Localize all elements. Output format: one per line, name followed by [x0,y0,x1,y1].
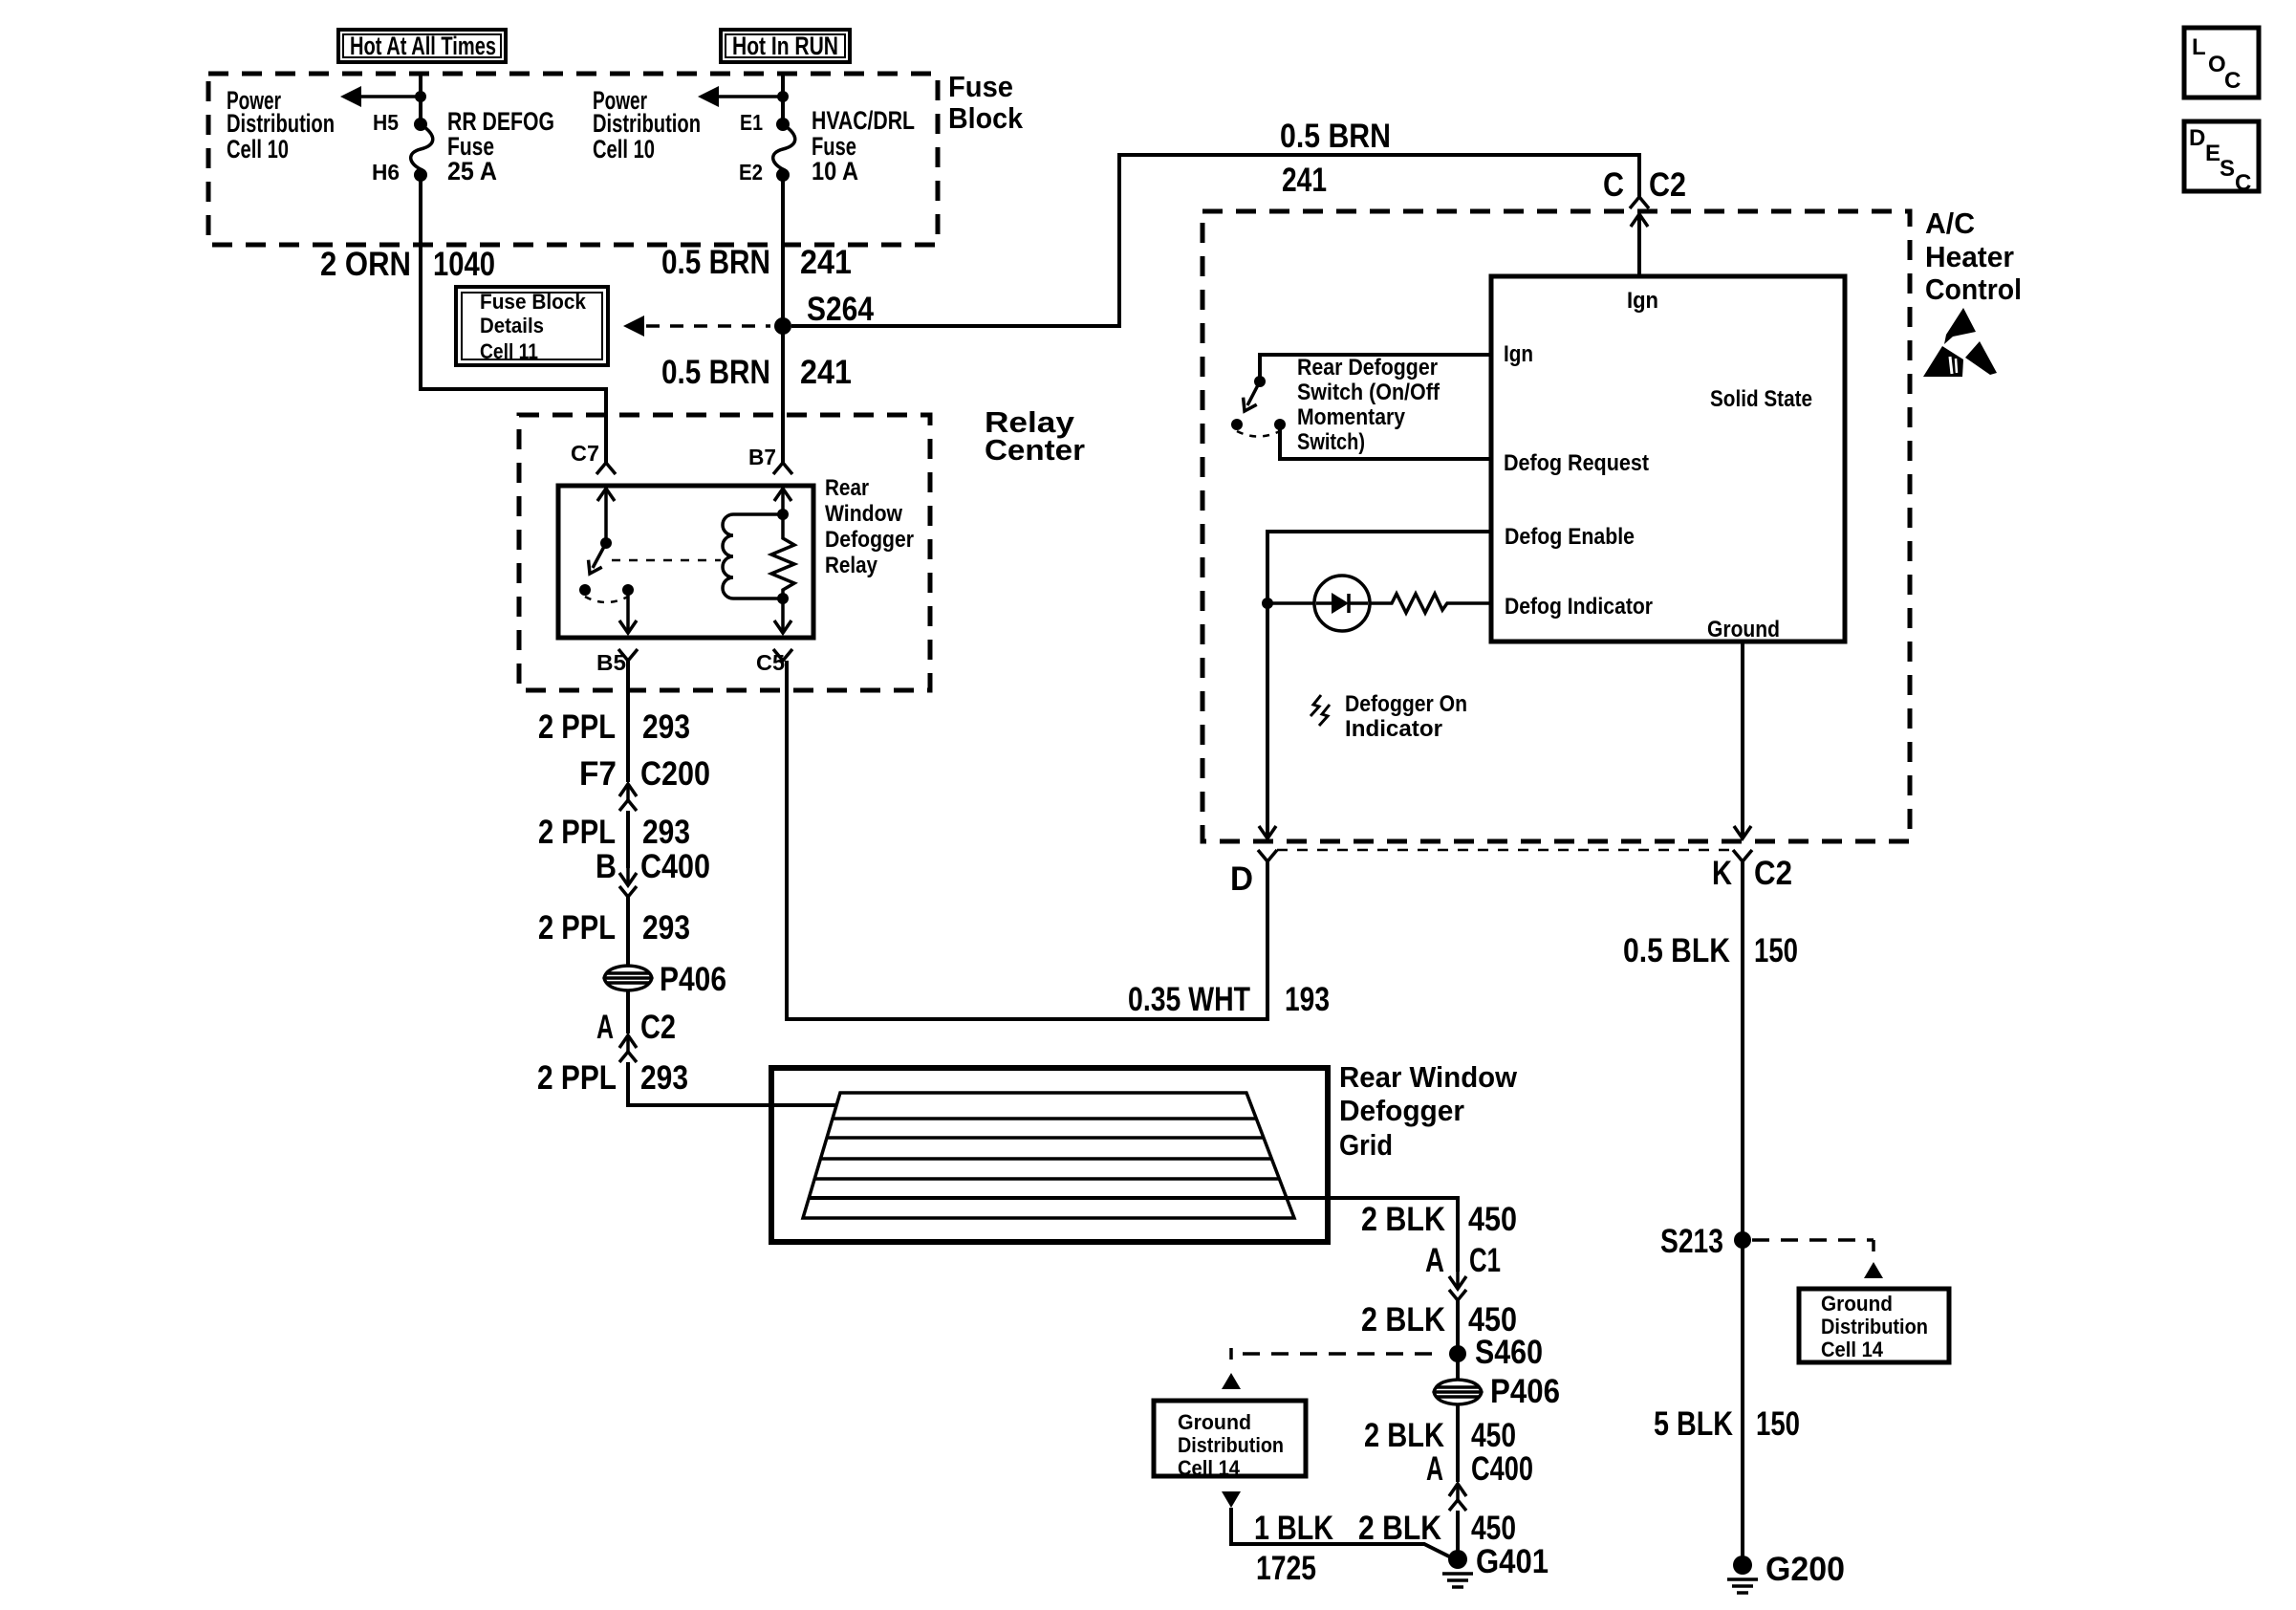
svg-text:2 PPL: 2 PPL [537,1059,617,1097]
svg-text:Switch (On/Off: Switch (On/Off [1297,380,1440,405]
svg-text:C7: C7 [571,441,599,466]
svg-text:Relay: Relay [825,553,878,578]
dashed reference arrow to fuse block details [646,324,770,328]
svg-text:1040: 1040 [433,246,495,283]
ground distribution callout right [1799,1289,1949,1362]
svg-text:Solid State: Solid State [1710,386,1812,412]
svg-text:Cell 10: Cell 10 [593,135,655,163]
svg-text:Details: Details [480,314,544,337]
svg-text:C2: C2 [1754,855,1792,892]
LED junction node [1262,598,1273,609]
svg-text:2 BLK: 2 BLK [1361,1301,1445,1338]
svg-text:150: 150 [1756,1405,1800,1443]
rear window defogger relay box [558,486,813,638]
svg-text:241: 241 [800,354,852,391]
svg-text:E1: E1 [740,110,763,135]
relay switch arm [593,543,606,568]
svg-text:2 PPL: 2 PPL [538,909,616,946]
ground G401 [1448,1550,1467,1569]
connector A C400 rear [1456,1484,1460,1501]
svg-text:Ign: Ign [1627,288,1658,314]
svg-text:Ign: Ign [1504,341,1533,367]
DESC legend box [2184,121,2259,191]
svg-text:G401: G401 [1476,1543,1549,1580]
svg-text:293: 293 [642,909,690,946]
connector D [1258,850,1277,861]
relay center dashed boundary [519,415,930,690]
svg-text:10 A: 10 A [812,157,858,185]
connector B5 [618,649,638,661]
svg-text:Momentary: Momentary [1297,404,1406,430]
svg-text:B: B [596,848,617,885]
fuse RR DEFOG 25A [414,118,427,131]
defogger on indicator label sparkle [1310,695,1321,716]
svg-text:B7: B7 [748,445,776,469]
wire switch to defog request [1280,424,1491,459]
svg-text:Fuse: Fuse [948,70,1013,103]
wire 0.5 BRN 241 upper [781,175,785,326]
grommet P406 left [604,966,652,990]
svg-text:Indicator: Indicator [1345,716,1442,742]
svg-text:2 PPL: 2 PPL [538,814,616,851]
ground G200 [1733,1556,1752,1575]
svg-text:2 BLK: 2 BLK [1364,1417,1444,1454]
svg-text:Rear Defogger: Rear Defogger [1297,355,1438,381]
svg-text:C: C [2224,68,2241,94]
svg-text:0.5 BRN: 0.5 BRN [1280,118,1391,155]
wire to defog indicator LED [1267,601,1314,605]
svg-text:Ground: Ground [1178,1410,1251,1434]
svg-text:450: 450 [1468,1201,1517,1238]
svg-text:O: O [2208,52,2226,77]
relay switch pivot [600,537,612,549]
defogger grid trapezoid [803,1093,1294,1218]
svg-text:Heater: Heater [1925,240,2014,273]
wire 2 BLK 450 seg3 [1456,1404,1460,1482]
fuse block details callout box [456,287,608,365]
connector C2 dashed line [1277,849,1733,852]
svg-text:293: 293 [642,814,690,851]
svg-text:F7: F7 [579,755,617,793]
fuse HVAC/DRL 10A [776,118,790,131]
ESD sensitivity symbol [1944,308,1976,344]
svg-text:C2: C2 [1649,166,1686,204]
svg-text:Rear Window: Rear Window [1339,1060,1518,1094]
wire defog enable [1267,532,1491,838]
rear defogger switch contact right [1274,419,1286,430]
rear defogger switch pivot [1254,376,1266,387]
fuse block dashed boundary [208,74,938,245]
svg-text:C: C [2235,170,2251,196]
svg-text:D: D [1230,860,1253,898]
rear window defogger grid box [771,1068,1328,1242]
svg-text:C2: C2 [640,1009,676,1046]
svg-text:Ground: Ground [1821,1292,1893,1316]
svg-text:2 BLK: 2 BLK [1361,1201,1445,1238]
svg-text:Distribution: Distribution [593,109,701,138]
connector B7 [773,463,792,474]
relay switch contact right [622,584,634,596]
svg-text:S213: S213 [1660,1223,1723,1260]
svg-text:Grid: Grid [1339,1128,1393,1162]
splice S264 [774,317,791,335]
wire S264 to A/C heater control [791,155,1639,326]
svg-text:241: 241 [1282,162,1327,199]
rear defogger switch contact left [1231,419,1243,430]
indicator resistor [1370,594,1491,613]
wire 2 PPL 293 seg2 [626,811,630,868]
dashed reference S460 to ground distribution [1243,1352,1441,1356]
Hot At All Times tag [338,30,506,62]
svg-text:293: 293 [640,1059,688,1097]
connector K C2 [1733,850,1752,861]
svg-text:293: 293 [642,708,690,746]
svg-text:A: A [1426,1450,1443,1488]
svg-text:C400: C400 [1471,1450,1533,1488]
svg-text:1 BLK: 1 BLK [1254,1510,1333,1547]
wire 0.5 BRN 241 lower [781,326,785,463]
svg-text:1725: 1725 [1256,1550,1316,1587]
relay internal dashed link [612,559,721,562]
svg-text:A: A [596,1009,614,1046]
connector C7 [596,463,616,474]
svg-text:C: C [1603,166,1624,204]
wire 0.5 BLK 150 [1741,861,1744,1240]
wire 2 PPL 293 seg3 [626,897,630,966]
relay resistor [771,514,794,598]
svg-text:B5: B5 [596,650,626,675]
wire 2 BLK 450 seg2 [1456,1300,1460,1354]
grid element line 1 [833,1117,1256,1120]
svg-text:D: D [2189,125,2205,151]
connector F7 C200 [626,784,630,801]
splice S460 [1449,1345,1466,1362]
wire 2 ORN 1040 [421,179,606,463]
grid element line 5 / output to 2 BLK [809,1198,1458,1272]
relay pin C7 entry arrow [604,486,608,543]
svg-text:P406: P406 [1490,1373,1560,1410]
svg-text:K: K [1712,855,1732,892]
wire 2 BLK 450 seg4 [1456,1511,1460,1559]
svg-text:Distribution: Distribution [227,109,335,138]
svg-text:193: 193 [1285,981,1330,1018]
svg-text:G200: G200 [1765,1551,1845,1588]
svg-text:25 A: 25 A [447,157,497,185]
relay switch mechanical dashed arc [585,597,628,602]
svg-text:L: L [2192,34,2206,60]
svg-text:Window: Window [825,501,902,527]
svg-text:150: 150 [1754,932,1798,969]
svg-text:H5: H5 [373,110,399,135]
svg-text:Distribution: Distribution [1821,1315,1928,1338]
svg-text:Ground: Ground [1707,617,1780,642]
relay coil [733,512,783,516]
svg-text:0.5 BLK: 0.5 BLK [1623,932,1730,969]
A/C heater control dashed boundary [1202,211,1910,841]
relay switch contact left [579,584,591,596]
svg-text:A/C: A/C [1925,207,1975,240]
node H5 junction [415,91,426,102]
svg-text:Defogger On: Defogger On [1345,691,1467,717]
svg-text:Cell 14: Cell 14 [1178,1456,1241,1480]
defogger on indicator LED [1314,576,1370,631]
reference arrow below ground distribution left [1222,1491,1241,1508]
svg-text:Hot At All Times: Hot At All Times [350,32,496,60]
svg-text:Fuse Block: Fuse Block [480,290,587,314]
svg-text:Defog Enable: Defog Enable [1505,524,1635,550]
A/C ign feed arrow [1637,214,1641,276]
svg-text:Hot In RUN: Hot In RUN [732,32,838,60]
svg-text:C400: C400 [640,848,710,885]
svg-text:Switch): Switch) [1297,429,1365,455]
connector C C2 top [1630,197,1649,208]
connector A C2 [626,990,630,1033]
arrow to power distribution left [346,95,421,98]
splice S213 [1734,1231,1751,1249]
svg-text:Center: Center [985,433,1085,467]
wire 2 PPL 293 seg4 to grid [628,1062,836,1105]
svg-text:S264: S264 [807,291,874,328]
wire 1 BLK 1725 [1231,1508,1451,1557]
svg-text:E2: E2 [739,160,763,185]
svg-text:2 ORN: 2 ORN [320,246,411,283]
svg-text:450: 450 [1471,1510,1516,1547]
rear defogger switch arm [1247,381,1260,405]
relay switch output arrow [626,590,630,631]
solid state control box [1491,276,1845,642]
connector B C400 [626,868,630,885]
svg-text:Defog Request: Defog Request [1504,450,1649,476]
connector A C1 [1456,1272,1460,1289]
svg-text:S: S [2220,156,2235,182]
wire fuse-block drop right [781,74,785,124]
dashed reference S213 to ground distribution [1752,1238,1874,1242]
grid element line 4 [814,1177,1279,1181]
svg-text:E: E [2205,141,2220,166]
svg-text:C1: C1 [1469,1242,1501,1279]
svg-text:A: A [1425,1242,1444,1279]
wire ign to switch [1260,355,1491,380]
svg-text:H6: H6 [372,160,400,185]
wire 0.35 WHT 193 [787,661,1267,1019]
svg-text:0.5 BRN: 0.5 BRN [661,354,770,391]
svg-text:Control: Control [1925,272,2022,306]
svg-text:2 BLK: 2 BLK [1358,1510,1441,1547]
svg-text:Defog Indicator: Defog Indicator [1505,594,1653,620]
svg-text:C5: C5 [756,650,785,675]
connector C5 [773,649,792,661]
svg-text:Defogger: Defogger [1339,1094,1464,1127]
svg-text:Cell 10: Cell 10 [227,135,289,163]
svg-text:0.35 WHT: 0.35 WHT [1128,981,1250,1018]
relay pin B7 entry arrow [781,486,785,514]
node E1 junction [777,91,789,102]
svg-text:Defogger: Defogger [825,527,914,553]
ground distribution callout left [1154,1401,1306,1476]
svg-text:Block: Block [948,101,1024,135]
svg-text:P406: P406 [660,961,726,998]
wire 5 BLK 150 [1741,1240,1744,1565]
grid element line 2 [827,1136,1264,1140]
Hot In RUN tag [721,30,850,62]
svg-text:C200: C200 [640,755,710,793]
grommet P406 right [1456,1354,1460,1380]
wire fuse-block drop left [419,74,422,124]
svg-text:Cell 14: Cell 14 [1821,1338,1884,1361]
svg-text:2 PPL: 2 PPL [538,708,616,746]
wire 2 PPL 293 seg1 [626,661,630,782]
svg-text:Cell 11: Cell 11 [480,339,538,363]
svg-text:HVAC/DRL: HVAC/DRL [812,106,915,135]
svg-text:5 BLK: 5 BLK [1654,1405,1733,1443]
LOC legend box [2184,28,2259,98]
relay coil junction bottom [777,593,789,604]
arrow to power distribution right [704,95,783,98]
relay coil junction top [777,509,789,520]
relay pin C5 exit arrow [781,598,785,631]
wire ground pin to K [1741,642,1744,838]
rear defogger switch dashed arc [1237,431,1280,437]
svg-text:450: 450 [1471,1417,1516,1454]
svg-text:241: 241 [800,244,852,281]
svg-text:0.5 BRN: 0.5 BRN [661,244,770,281]
svg-text:Distribution: Distribution [1178,1433,1284,1457]
svg-text:S460: S460 [1475,1334,1543,1371]
svg-text:Rear: Rear [825,475,869,501]
grid element line 3 [820,1157,1271,1161]
